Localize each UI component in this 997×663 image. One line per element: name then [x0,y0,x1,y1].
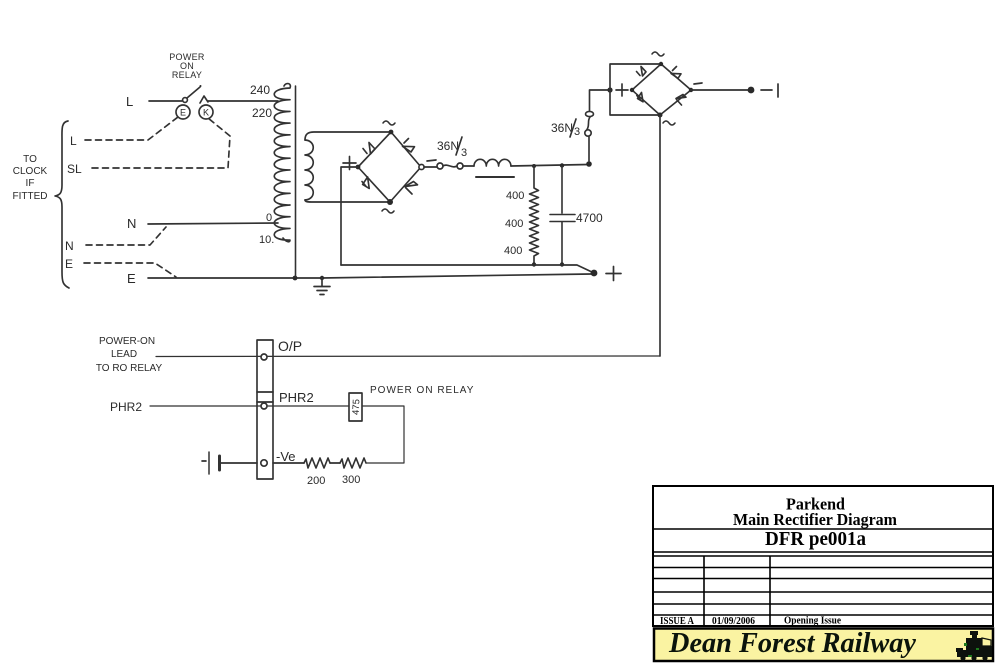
wire dashed L to switch E [85,117,178,140]
svg-text:3: 3 [574,126,580,138]
label N (neutral input) [127,216,136,231]
svg-text:N: N [65,239,74,253]
svg-text:01/09/2006: 01/09/2006 [712,616,755,627]
wire BR2 input box [610,64,661,115]
svg-text:TO RO RELAY: TO RO RELAY [96,363,163,374]
slash 36N/3 F2 [570,119,576,137]
inductor L1 [474,159,514,177]
svg-text:PHR2: PHR2 [110,400,142,414]
svg-text:300: 300 [342,474,360,486]
svg-text:4700: 4700 [576,211,603,225]
resistor 200 [304,458,330,468]
label POWER-ON LEAD TO RO RELAY [96,336,163,374]
svg-text:CLOCK: CLOCK [13,166,48,177]
wire plus rail [341,265,594,273]
svg-text:240: 240 [250,83,270,97]
junction bridge BR2 input [607,87,612,92]
svg-text:E: E [180,108,186,118]
wire secondary bottom lead [305,200,389,202]
label + BR2 [616,84,628,96]
label ~ BR1 bottom [382,209,394,213]
wire resistors to connector [273,462,304,464]
transformer T1 secondary winding [305,140,313,200]
wire BR2 bottom down [659,115,661,356]
svg-text:220: 220 [252,106,272,120]
svg-text:10.: 10. [259,234,274,246]
label + output [606,267,621,281]
wire secondary top lead [305,132,390,140]
label E (clock) [65,257,73,271]
svg-text:E: E [65,257,73,271]
issue row ISSUE A [660,616,694,627]
svg-text:36N: 36N [437,139,459,153]
label L (live input) [126,94,133,109]
wire connector to battery [221,462,257,464]
switch S1 lever [183,85,202,102]
connector pin O/P [261,354,267,360]
svg-text:POWER-ON: POWER-ON [99,336,155,347]
svg-text:O/P: O/P [278,338,302,354]
label PHR2 right [279,390,314,405]
svg-text:SL: SL [67,162,82,176]
svg-text:-Ve: -Ve [276,449,296,464]
brace clock group [55,121,69,288]
svg-text:400: 400 [506,190,524,202]
svg-text:RELAY: RELAY [172,70,202,80]
connector pin -Ve [261,460,267,466]
resistor 300 [340,458,366,468]
title block column lines [704,556,770,626]
wire dashed N to N [86,227,166,245]
wire O/P line [156,355,660,358]
wire PHR2 line [150,405,349,407]
svg-text:200: 200 [307,475,325,487]
svg-text:PHR2: PHR2 [279,390,314,405]
title text Main Rectifier Diagram [733,510,897,529]
wire inductor to junction [511,165,588,167]
label TO CLOCK IF FITTED [13,154,48,202]
label POWER ON RELAY (switch) [169,52,205,80]
svg-text:TO: TO [23,154,37,165]
wire dashed SL to switch K [92,118,230,168]
locomotive logo [956,631,992,661]
label 0 tap [266,212,272,224]
title block row lines [653,529,993,615]
wire BR2 minus output [691,89,748,91]
label PHR2 left [110,400,142,414]
transformer T1 primary winding [274,84,290,242]
svg-text:FITTED: FITTED [13,191,48,202]
label 4700 [576,211,603,225]
terminal minus output [748,87,755,94]
svg-text:400: 400 [504,245,522,257]
svg-text:K: K [203,108,209,118]
svg-text:400: 400 [505,218,523,230]
battery B1 [202,452,220,474]
svg-text:L: L [126,94,133,109]
connector block [257,340,273,479]
wire dashed E to E [84,263,176,277]
label + BR1 [343,157,356,170]
label N (clock) [65,239,74,253]
svg-text:Dean Forest Railway: Dean Forest Railway [668,628,917,659]
svg-text:475: 475 [351,399,363,415]
fuse F2 [585,90,610,161]
label POWER ON RELAY (coil) [370,385,474,396]
label 200 [307,475,325,487]
wire relay to resistors [362,406,404,463]
svg-text:IF: IF [26,178,35,189]
wire BR1 plus down [341,167,358,265]
junction fuse bottom [586,161,592,167]
svg-text:POWER ON RELAY: POWER ON RELAY [370,385,474,396]
terminal plus output [591,270,598,277]
svg-text:Opening Issue: Opening Issue [784,616,841,627]
label 220 [252,106,272,120]
fuse F1 [424,163,474,169]
label SL (clock) [67,162,82,176]
contact circle E [176,105,190,119]
ground symbol [314,276,330,295]
label ~ BR2 bottom [663,121,675,125]
wire between resistors [330,462,340,464]
svg-text:Main Rectifier Diagram: Main Rectifier Diagram [733,510,897,529]
issue row date [712,616,755,627]
title block frame [653,486,993,626]
junction core to earth [293,276,298,281]
drawing number DFR pe001a [765,529,866,550]
label ~ BR2 top [652,52,664,56]
switch contact arrow K [200,96,208,103]
svg-text:0: 0 [266,212,272,224]
issue row Opening Issue [784,616,841,627]
label 36N/3 fuse F2 [551,121,580,138]
junction resistor top [532,164,536,168]
label 400 top [506,190,524,202]
junction capacitor bottom [560,262,564,266]
label 10 tap [259,234,274,246]
label - BR1 [427,160,436,161]
bridge rectifier BR1 [356,130,425,205]
label ~ BR1 top [383,121,395,125]
junction capacitor top [560,163,564,167]
label -Ve [276,449,296,464]
wire E rail [148,274,591,278]
label O/P [278,338,302,354]
bridge rectifier BR2 [630,62,693,118]
relay coil 475 [349,393,362,421]
label 300 [342,474,360,486]
contact circle K [199,105,213,119]
svg-text:DFR pe001a: DFR pe001a [765,529,866,550]
svg-text:N: N [127,216,136,231]
svg-text:E: E [127,271,136,286]
wire switch to transformer 220 tap [208,100,278,102]
label L (clock) [70,134,77,148]
svg-text:3: 3 [461,147,467,159]
label E (earth input) [127,271,136,286]
junction resistor bottom [532,262,536,266]
label 400 bottom [504,245,522,257]
banner Dean Forest Railway [654,628,993,661]
connector pin PHR2 [261,403,267,409]
resistor chain 400x3 [530,166,539,264]
wire L to switch [149,100,182,102]
svg-text:36N: 36N [551,121,573,135]
label minus output [761,84,778,97]
label 36N/3 fuse F1 [437,139,467,159]
slash 36N/3 F1 [456,137,462,155]
label - BR2 [694,83,702,84]
svg-text:ISSUE A: ISSUE A [660,616,694,627]
capacitor C1 4700 [550,166,575,264]
transformer T1 core [295,86,297,277]
wire N to transformer 0 tap [148,223,278,224]
label 400 middle [505,218,523,230]
label 240 [250,83,270,97]
title text Parkend [786,495,846,514]
svg-text:L: L [70,134,77,148]
svg-text:LEAD: LEAD [111,349,137,360]
